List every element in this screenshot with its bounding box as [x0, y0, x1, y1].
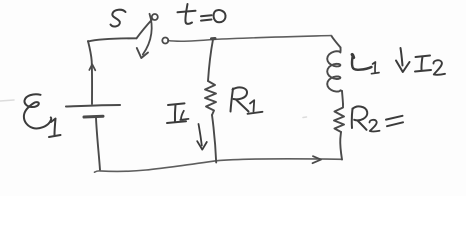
label R1: subscript underline — [248, 112, 263, 114]
label R1: bowl — [233, 87, 248, 99]
current I2 down arrow — [401, 48, 403, 66]
label I1: stem — [174, 105, 177, 122]
label E1 subscript 1 — [51, 119, 56, 136]
resistor R1 zigzag — [205, 81, 216, 115]
faint scan artifacts — [0, 100, 307, 118]
wire: R1 branch top vertical — [208, 40, 213, 82]
wire: right vertical top (corner to coil) — [332, 36, 341, 48]
wire: R1 branch bottom vertical — [212, 115, 216, 163]
junction blob at R1 top — [212, 37, 216, 40]
label I1: subscript foot — [180, 119, 188, 120]
label = after R2 lower stroke — [387, 122, 403, 126]
wire: left vertical (E1 branch, top) — [88, 41, 92, 104]
label R2: leg — [358, 121, 367, 130]
current arrow tick on left wire — [89, 64, 95, 70]
label I1: subscript 1 — [181, 111, 184, 119]
switch closing curved arrow — [143, 14, 152, 55]
label E1 (emf): script epsilon — [24, 94, 51, 128]
current I1 down arrow — [199, 124, 202, 146]
label R1: stem — [231, 89, 234, 112]
arrowhead on bottom wire (pointing right) — [313, 156, 322, 163]
label S (switch) — [111, 10, 126, 27]
label L1: subscript 1 base — [372, 73, 380, 74]
faint speck near R2 — [303, 116, 307, 119]
battery E1 long plate (positive) — [66, 105, 120, 107]
label E1 subscript 1 base — [49, 135, 61, 137]
label I1: bottom serif — [167, 121, 186, 123]
label I2: stem — [421, 57, 422, 71]
label L1: script L — [352, 55, 372, 70]
I1 arrowhead — [197, 141, 207, 149]
switch S blade — [137, 20, 153, 39]
switch terminal circle (upper) — [152, 14, 158, 20]
label I2: subscript 2 — [433, 60, 445, 75]
label t crossbar — [178, 11, 196, 13]
wire: E1 branch bottom vertical — [96, 118, 100, 170]
label 0 (in t=0) — [214, 10, 226, 22]
label I1: top serif — [168, 103, 185, 105]
label I2: bottom serif — [415, 70, 431, 72]
resistor R2 zigzag — [334, 104, 344, 132]
label R2: stem — [351, 109, 354, 129]
wire: right vertical between L1 and R2 — [342, 91, 343, 104]
label t=0 : letter t — [185, 4, 192, 24]
label R1: subscript 1 — [250, 100, 254, 111]
label R1: leg — [236, 100, 249, 112]
label L1: script L head blob — [352, 55, 353, 58]
switch terminal circle (lower) — [162, 38, 168, 44]
wire: bottom horizontal — [95, 159, 343, 172]
I2 arrowhead — [396, 61, 410, 73]
battery E1 short plate (negative) — [84, 115, 103, 119]
wire: right vertical below R2 to bottom corner — [340, 132, 342, 160]
wire: top horizontal (switch to top-right corner) — [168, 36, 332, 42]
label R2: subscript 2 — [369, 120, 379, 132]
label = (in t=0) — [201, 15, 212, 16]
label R2: bowl — [353, 106, 368, 120]
inductor L1 coil — [327, 48, 342, 92]
label = after R2 — [386, 116, 403, 120]
label L1: subscript 1 — [373, 62, 376, 72]
wire: left horizontal from corner to switch — [88, 38, 137, 41]
arrowhead of switch arrow — [137, 48, 148, 58]
label I2: top serif — [416, 56, 431, 58]
faint scan mark left edge — [0, 100, 14, 101]
label = lower stroke — [201, 20, 212, 21]
